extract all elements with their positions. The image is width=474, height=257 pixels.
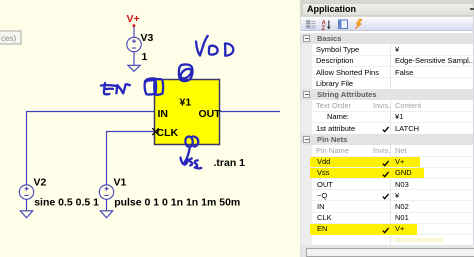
svg-text:V+: V+ <box>127 13 140 25</box>
svg-text:pulse 0 1 0 1n 1n 1m 50m: pulse 0 1 0 1n 1n 1m 50m <box>114 197 240 209</box>
svg-text:sine 0.5 0.5 1: sine 0.5 0.5 1 <box>34 197 99 209</box>
svg-text:.tran 1: .tran 1 <box>214 157 246 169</box>
svg-text:Z: Z <box>322 26 326 31</box>
svg-text:V2: V2 <box>34 177 47 189</box>
svg-text:V1: V1 <box>114 177 127 189</box>
svg-text:1: 1 <box>142 51 148 63</box>
svg-text:¥1: ¥1 <box>180 97 192 109</box>
svg-text:CLK: CLK <box>157 127 179 139</box>
svg-text:IN: IN <box>158 108 169 120</box>
svg-text:ces): ces) <box>1 34 16 43</box>
svg-text:OUT: OUT <box>199 108 222 120</box>
svg-text:V3: V3 <box>141 32 154 44</box>
